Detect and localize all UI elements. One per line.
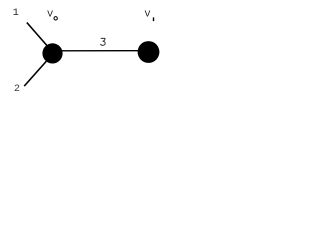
svg-text:2: 2 — [14, 84, 20, 95]
svg-text:V: V — [145, 9, 151, 19]
svg-text:V: V — [47, 9, 53, 19]
svg-text:1: 1 — [13, 8, 19, 19]
